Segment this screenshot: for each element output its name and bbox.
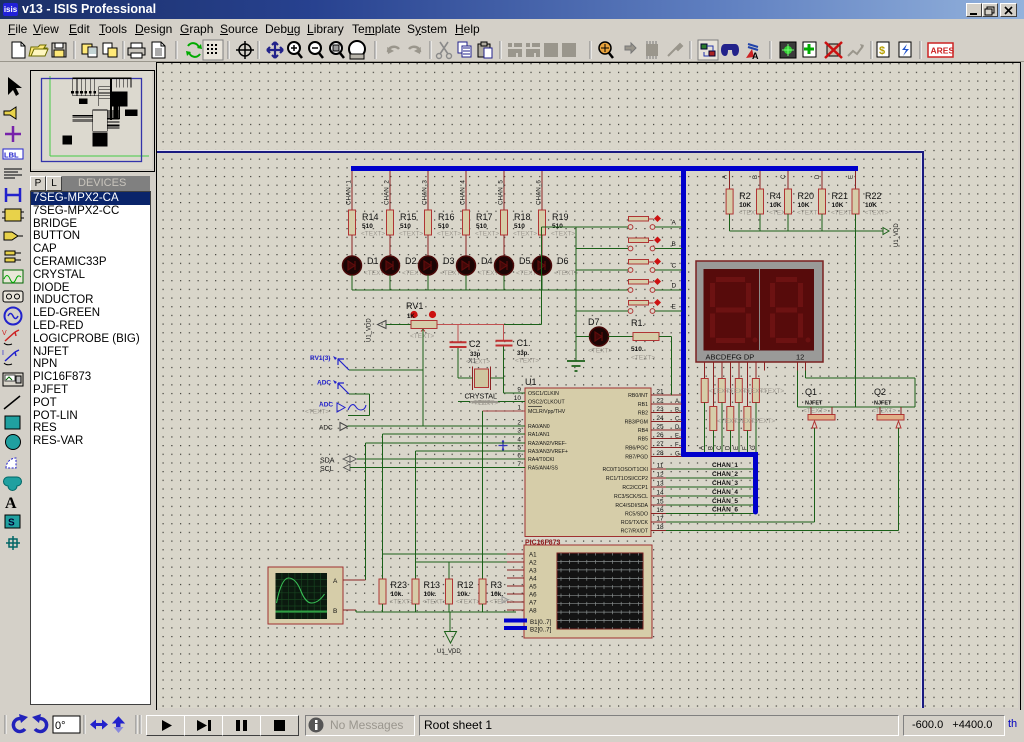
svg-text:12: 12 (796, 353, 804, 362)
wire (541, 275, 543, 290)
svg-text:<TEXT>: <TEXT> (760, 388, 784, 395)
svg-text:CHAN_1: CHAN_1 (712, 462, 738, 469)
bus top horizontal (351, 166, 858, 171)
svg-text:12: 12 (656, 472, 664, 479)
pin 26 RB5 (651, 438, 682, 440)
svg-text:<TEXT>: <TEXT> (751, 418, 775, 425)
pin 7 RA5/AN4/SS (511, 467, 525, 469)
svg-text:11: 11 (657, 463, 664, 470)
potentiometer RV1 (411, 321, 437, 329)
capacitor C1 (503, 325, 505, 341)
pin 27 RB6/PGC (651, 447, 682, 449)
resistor R13 (415, 571, 417, 580)
svg-text:<TEXT>: <TEXT> (865, 210, 889, 217)
svg-text:RB2: RB2 (638, 411, 648, 417)
pin 9 OSC1/CLKIN (511, 392, 525, 394)
wire to Q2 (806, 377, 916, 379)
svg-text:RB4: RB4 (638, 428, 648, 434)
pin 10 OSC2/CLKOUT (511, 401, 525, 403)
resistor seg F (744, 407, 751, 431)
svg-text:ADC: ADC (319, 425, 333, 432)
svg-text:B: B (708, 446, 714, 450)
wire (351, 235, 353, 256)
pin A3 (507, 569, 524, 571)
svg-text:RB1: RB1 (638, 402, 648, 408)
svg-text:RA1/AN1: RA1/AN1 (528, 432, 550, 438)
svg-text:C: C (675, 417, 680, 423)
left digit (710, 277, 751, 343)
svg-text:RC6/TX/CK: RC6/TX/CK (621, 520, 649, 526)
svg-text:CHAN_6: CHAN_6 (536, 180, 543, 205)
svg-text:RB3/PGM: RB3/PGM (625, 420, 648, 426)
svg-text:9: 9 (517, 387, 521, 394)
svg-text:17: 17 (656, 516, 664, 523)
7seg display (696, 261, 823, 362)
pin 14 RC3/SCK/SCL (651, 495, 754, 497)
right digit (770, 277, 803, 343)
svg-text:A: A (700, 446, 706, 450)
svg-text:A: A (723, 175, 729, 179)
wire SCL (350, 467, 525, 469)
wire display pin2 (805, 362, 807, 371)
svg-text:14: 14 (656, 490, 664, 497)
wire RA1 to R23 (383, 433, 526, 435)
svg-text:<TEXT>: <TEXT> (551, 231, 575, 238)
svg-text:F: F (675, 443, 679, 449)
svg-text:B: B (333, 608, 337, 615)
sheet border (157, 150, 924, 152)
svg-text:A: A (752, 51, 759, 61)
svg-text:18: 18 (656, 524, 664, 531)
svg-text:5: 5 (517, 445, 521, 452)
svg-text:CHAN_2: CHAN_2 (712, 471, 738, 478)
wire button feed (541, 227, 543, 325)
svg-text:RB5: RB5 (638, 437, 648, 443)
wire (576, 310, 628, 312)
wire (427, 235, 429, 256)
svg-text:A: A (5, 495, 17, 512)
svg-text:<TEXT>: <TEXT> (410, 333, 434, 340)
svg-text:A3: A3 (529, 568, 537, 575)
pin 1 MCLR/Vpp/THV (511, 410, 525, 412)
svg-text:D: D (815, 174, 821, 179)
svg-text:RV1(3): RV1(3) (310, 355, 330, 362)
svg-text:E: E (849, 175, 855, 179)
wire CHAN_1 column (351, 171, 353, 210)
svg-text:R21: R21 (832, 191, 849, 201)
svg-text:RB6/PGC: RB6/PGC (625, 446, 648, 452)
minimap (30, 70, 155, 172)
svg-text:1: 1 (517, 405, 521, 412)
wire CHAN_2 column (389, 171, 391, 210)
pin 23 RB2 (651, 412, 682, 414)
svg-text:RB0/INT: RB0/INT (628, 393, 649, 399)
svg-text:Q2: Q2 (874, 387, 886, 397)
resistor R2 (726, 189, 733, 214)
svg-text:B: B (753, 175, 759, 179)
svg-text:MCLR/Vpp/THV: MCLR/Vpp/THV (528, 409, 566, 415)
wire (351, 275, 353, 290)
wire OSC1 (504, 392, 526, 394)
svg-text:22: 22 (656, 398, 664, 405)
pin 18 RC7/RX/DT (651, 530, 899, 532)
resistor seg B (710, 407, 717, 431)
wire segment F (746, 362, 748, 407)
svg-text:A: A (333, 578, 338, 585)
wire display pin1 (797, 362, 799, 371)
pin 16 RC5/SDO (651, 513, 754, 515)
wire (576, 248, 628, 250)
resistor R1 (633, 333, 659, 341)
wire gate Q2 (898, 428, 900, 531)
svg-text:D5: D5 (519, 256, 531, 266)
svg-text:C: C (717, 445, 723, 450)
svg-text:A4: A4 (529, 576, 537, 583)
svg-text:R17: R17 (476, 212, 493, 222)
svg-text:E: E (675, 434, 679, 440)
svg-text:NJFET: NJFET (805, 401, 823, 407)
wire CHAN_6 column (541, 171, 543, 210)
svg-text:U1: U1 (525, 377, 537, 387)
svg-text:D7: D7 (588, 317, 600, 327)
LED D1 (343, 256, 362, 275)
svg-text:RA3/AN3/VREF+: RA3/AN3/VREF+ (528, 449, 568, 455)
svg-text:R20: R20 (798, 191, 815, 201)
svg-text:<TEXT>: <TEXT> (390, 599, 414, 606)
wire ground rail (356, 611, 516, 613)
wire A drop (729, 171, 731, 189)
pin 6 RA4/T0CKI (511, 458, 525, 460)
resistor R18 (501, 210, 508, 235)
svg-text:C2: C2 (469, 339, 481, 349)
svg-text:ADC: ADC (319, 402, 333, 409)
capacitor C2 (457, 325, 459, 342)
wire E column down to FETs (855, 231, 857, 407)
svg-text:A: A (672, 220, 677, 227)
pin A4 (507, 577, 524, 579)
svg-text:10K: 10K (798, 202, 810, 209)
svg-text:<TEXT>: <TEXT> (588, 348, 612, 355)
pin 21 RB0/INT (651, 394, 682, 396)
svg-text:<TEXT>: <TEXT> (803, 408, 827, 415)
resistor R4 (757, 189, 764, 214)
wire scope A (343, 579, 366, 581)
svg-text:<TEXT>: <TEXT> (423, 599, 447, 606)
svg-text:<TEXT>: <TEXT> (554, 270, 578, 277)
svg-text:10K: 10K (739, 202, 751, 209)
wire RA0 (348, 425, 526, 427)
pin 11 RC0/T1OSO/T1CKI (651, 468, 754, 470)
svg-text:OSC1/CLKIN: OSC1/CLKIN (528, 391, 559, 397)
resistor R16 (425, 210, 432, 235)
svg-text:RC7/RX/DT: RC7/RX/DT (621, 529, 649, 535)
svg-text:R13: R13 (424, 580, 441, 590)
pin A5 (507, 585, 524, 587)
svg-text:U1_VDD: U1_VDD (367, 318, 373, 342)
svg-text:C1.: C1. (517, 338, 531, 348)
wire R12 top (448, 562, 450, 571)
svg-text:10K: 10K (865, 202, 877, 209)
svg-text:10k.: 10k. (491, 591, 504, 598)
svg-text:27: 27 (656, 441, 664, 448)
wire segment C (721, 362, 723, 379)
pin 17 RC6/TX/CK (651, 521, 815, 523)
svg-text:B2[0..7]: B2[0..7] (530, 627, 552, 634)
wire segment A (704, 362, 706, 379)
wire CHAN_5 column (503, 171, 505, 210)
button E (629, 301, 649, 306)
wire CHAN_3 column (427, 171, 429, 210)
svg-text:510: 510 (362, 223, 373, 230)
svg-text:A7: A7 (529, 600, 537, 607)
svg-text:CHAN_1: CHAN_1 (346, 180, 353, 205)
svg-text:10K: 10K (770, 202, 782, 209)
svg-text:<TEXT>: <TEXT> (456, 599, 480, 606)
svg-text:6: 6 (517, 453, 521, 460)
resistor seg D (727, 407, 734, 431)
svg-text:1K: 1K (407, 314, 415, 320)
wire probe (349, 369, 423, 371)
svg-text:510: 510 (514, 223, 525, 230)
bus B1 stub (504, 619, 527, 623)
pin A1 (507, 553, 524, 555)
svg-text:10k.: 10k. (391, 591, 404, 598)
wire RA2 to scope (366, 442, 526, 444)
svg-text:X1: X1 (468, 358, 477, 365)
wire (576, 336, 590, 338)
svg-text:OSC2/CLKOUT: OSC2/CLKOUT (528, 400, 565, 406)
wire scope B (343, 609, 356, 611)
svg-text:LBL: LBL (4, 151, 19, 160)
resistor R23 (382, 571, 384, 580)
svg-text:510: 510 (400, 223, 411, 230)
svg-text:<TEXT>: <TEXT> (513, 231, 537, 238)
devices list (30, 191, 151, 705)
wire segment E (738, 362, 740, 379)
pin A6 (507, 593, 524, 595)
svg-text:<TEXT>: <TEXT> (475, 231, 499, 238)
LED D5 (495, 256, 514, 275)
svg-text:D1: D1 (367, 256, 379, 266)
matrix display block (524, 545, 652, 638)
resistor seg C (718, 379, 725, 403)
wire D drop (821, 171, 823, 189)
svg-text:10K: 10K (832, 202, 844, 209)
svg-text:RC1/T1OSI/CCP2: RC1/T1OSI/CCP2 (606, 476, 648, 482)
wire button feed vertical (575, 227, 577, 361)
resistor seg E (735, 379, 742, 403)
pin A7 (507, 601, 524, 603)
transistor Q2 NJFET (877, 415, 904, 421)
wire B drop (759, 171, 761, 189)
svg-text:33p.: 33p. (517, 351, 529, 357)
svg-text:CHAN_2: CHAN_2 (384, 180, 391, 205)
wire (576, 269, 628, 271)
devices header (30, 176, 150, 191)
svg-text:<TEXT>: <TEXT> (515, 358, 539, 365)
svg-text:CHAN_6: CHAN_6 (712, 507, 738, 514)
svg-text:16: 16 (656, 507, 664, 514)
svg-text:R4: R4 (770, 191, 782, 201)
pin 4 RA2/AN2/VREF- (511, 442, 525, 444)
svg-text:Q1: Q1 (805, 387, 817, 397)
crystal X1 (475, 369, 489, 388)
wire gate Q1 (814, 428, 816, 522)
svg-text:24: 24 (656, 415, 664, 422)
wire (541, 235, 543, 256)
svg-text:CHAN_3: CHAN_3 (422, 180, 429, 205)
svg-text:NJFET: NJFET (874, 401, 892, 407)
svg-text:B1[0..7]: B1[0..7] (530, 619, 552, 626)
bottom bar (0, 710, 1024, 742)
svg-text:RC3/SCK/SCL: RC3/SCK/SCL (614, 494, 648, 500)
wire (503, 275, 505, 290)
wire (465, 275, 467, 290)
svg-text:A: A (675, 399, 679, 405)
svg-text:RA2/AN2/VREF-: RA2/AN2/VREF- (528, 441, 567, 447)
wire SDA (357, 458, 525, 460)
grey terminal arrow (502, 597, 508, 604)
svg-text:CHAN_4: CHAN_4 (460, 180, 467, 205)
svg-text:<TEXT>: <TEXT> (437, 231, 461, 238)
svg-text:25: 25 (656, 424, 664, 431)
LED D3 (419, 256, 438, 275)
svg-text:D6: D6 (557, 256, 569, 266)
bus corner to CHAN (681, 452, 756, 457)
pin 2 RA0/AN0 (511, 425, 525, 427)
svg-text:10k.: 10k. (457, 591, 470, 598)
svg-text:R19: R19 (552, 212, 569, 222)
wire R1 to RB0 (659, 336, 672, 338)
svg-text:$: $ (879, 45, 885, 57)
svg-text:D3: D3 (443, 256, 455, 266)
svg-text:R2: R2 (739, 191, 751, 201)
svg-text:26: 26 (656, 432, 664, 439)
button D (629, 280, 649, 285)
top toolbar (0, 38, 1024, 62)
wire segment G (755, 362, 757, 379)
pin A2 (507, 561, 524, 563)
wire (389, 235, 391, 256)
svg-text:RB7/PGD: RB7/PGD (625, 455, 648, 461)
wire FET drain rail (798, 406, 915, 408)
svg-text:C: C (781, 174, 787, 179)
svg-text:CHAN_5: CHAN_5 (712, 498, 738, 505)
terminal U1_VDD left arrow (378, 321, 387, 329)
ground (567, 361, 585, 371)
svg-text:A2: A2 (529, 560, 537, 567)
resistor R20 (785, 189, 792, 214)
svg-text:R23: R23 (391, 580, 408, 590)
svg-text:A1: A1 (529, 552, 537, 559)
left toolbar (0, 62, 28, 710)
svg-text:SDA: SDA (320, 458, 335, 465)
wire crystal leads (458, 377, 473, 379)
svg-text:4: 4 (517, 437, 521, 444)
pin 12 RC1/T1OSI/CCP2 (651, 477, 754, 479)
svg-text:D4: D4 (481, 256, 493, 266)
resistor R3 (482, 571, 484, 580)
svg-text:<TEXT>: <TEXT> (470, 400, 494, 407)
svg-text:3: 3 (517, 428, 521, 435)
resistor seg G (752, 379, 759, 403)
svg-text:A8: A8 (529, 608, 537, 615)
svg-text:CHAN_3: CHAN_3 (712, 480, 738, 487)
pin 13 RC2/CCP1 (651, 486, 754, 488)
svg-text:<TEXT>: <TEXT> (361, 231, 385, 238)
op-amp U1 PIC16F873 box (525, 388, 651, 537)
svg-text:RA0/AN0: RA0/AN0 (528, 424, 550, 430)
wire (542, 226, 629, 228)
svg-text:0°: 0° (55, 720, 66, 732)
svg-text:RC0/T1OSO/T1CKI: RC0/T1OSO/T1CKI (602, 467, 648, 473)
svg-text:RA5/AN4/SS: RA5/AN4/SS (528, 466, 559, 472)
svg-text:D: D (675, 425, 680, 431)
wire segment B (712, 362, 714, 407)
svg-text:ADC: ADC (317, 380, 331, 387)
wire (503, 235, 505, 256)
svg-text:R16: R16 (438, 212, 455, 222)
svg-text:G: G (751, 445, 757, 450)
svg-text:CHAN_4: CHAN_4 (712, 489, 738, 496)
resistor R12 (448, 571, 450, 580)
wire segment D (729, 362, 731, 407)
svg-text:R22: R22 (865, 191, 882, 201)
svg-text:V: V (2, 330, 7, 337)
bus B2 stub (504, 626, 527, 630)
svg-text:F: F (742, 446, 748, 450)
svg-text:ARES: ARES (931, 46, 955, 56)
svg-text:B: B (672, 241, 676, 248)
button C (629, 260, 649, 265)
svg-text:ABCDEFG DP: ABCDEFG DP (706, 353, 755, 362)
svg-text:D: D (672, 283, 677, 290)
transistor Q1 NJFET (808, 415, 835, 421)
svg-text:28: 28 (656, 450, 664, 457)
svg-text:2: 2 (517, 420, 521, 427)
svg-text:R1.: R1. (631, 318, 645, 328)
svg-text:<TEXT>: <TEXT> (797, 210, 821, 217)
svg-text:RC4/SDI/SDA: RC4/SDI/SDA (615, 503, 648, 509)
pin 3 RA1/AN1 (511, 433, 525, 435)
title bar (0, 0, 1024, 19)
pin 28 RB7/PGD (651, 456, 682, 458)
pin A8 (507, 609, 524, 611)
svg-text:10: 10 (514, 395, 522, 402)
pin 5 RA3/AN3/VREF+ (511, 450, 525, 452)
svg-text:R3: R3 (491, 580, 503, 590)
junction marker (499, 441, 508, 450)
wire OSC2 (458, 401, 525, 403)
svg-text:R12: R12 (457, 580, 474, 590)
wire VDD rail (730, 230, 883, 232)
svg-text:510.: 510. (631, 346, 644, 353)
svg-text:R14: R14 (362, 212, 379, 222)
svg-text:RV1: RV1 (406, 301, 423, 311)
pin 22 RB1 (651, 403, 682, 405)
resistor R14 (349, 210, 356, 235)
terminal U1_VDD arrow (883, 228, 889, 235)
pin 24 RB3/PGM (651, 421, 682, 423)
wire MCLR (483, 410, 526, 412)
svg-text:D: D (725, 445, 731, 450)
LED D2 (381, 256, 400, 275)
menu bar (0, 19, 1024, 38)
button A (629, 217, 649, 222)
svg-text:B: B (675, 408, 679, 414)
bus vertical main (681, 166, 686, 455)
svg-text:I: I (2, 350, 4, 357)
